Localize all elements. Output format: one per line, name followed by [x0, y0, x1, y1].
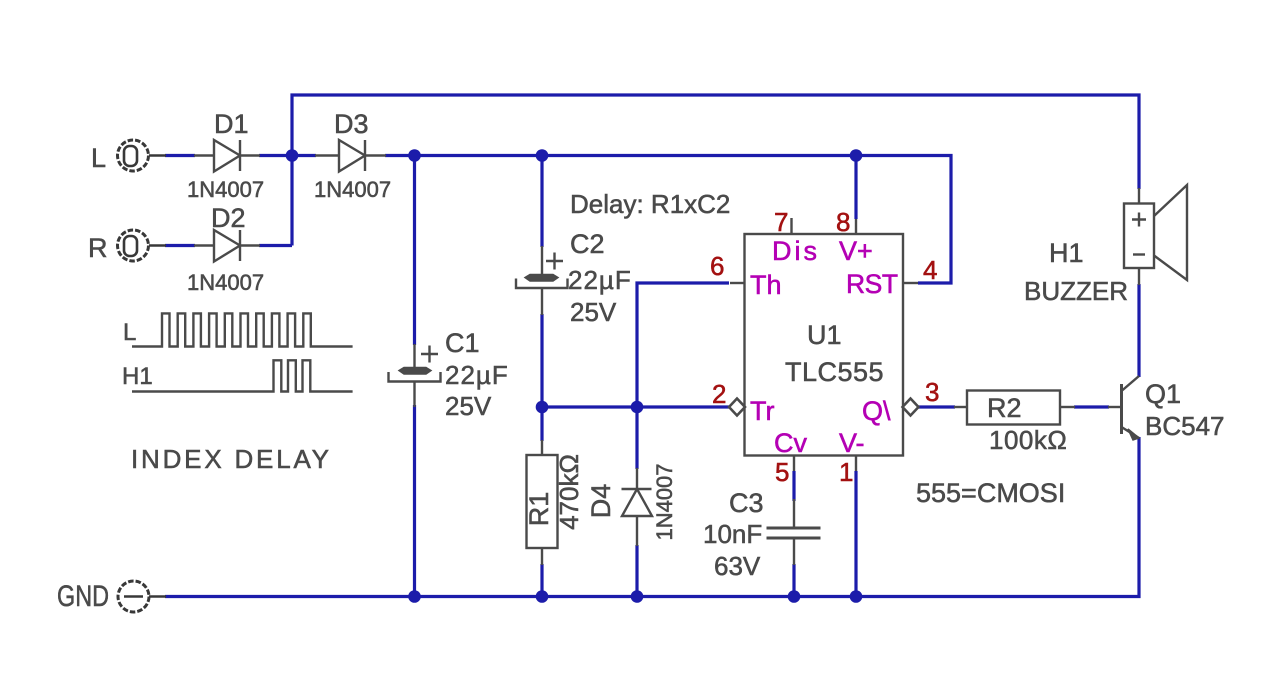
wire Th net	[637, 283, 729, 469]
svg-text:GND: GND	[57, 580, 109, 613]
wire R input	[165, 244, 292, 247]
svg-text:63V: 63V	[714, 551, 761, 581]
svg-text:V+: V+	[839, 236, 873, 266]
wire R1 column	[540, 407, 543, 596]
svg-text:7: 7	[774, 207, 788, 237]
svg-text:RST: RST	[846, 269, 898, 299]
svg-text:25V: 25V	[570, 297, 617, 327]
pin 3 diamond (Q\)	[903, 399, 919, 416]
ground terminal GND	[118, 581, 166, 612]
svg-text:1: 1	[839, 457, 853, 487]
svg-text:4: 4	[923, 255, 937, 285]
wire D3 output to RST rail	[385, 156, 951, 284]
terminal R	[118, 230, 167, 261]
wire Q output to R2	[918, 405, 1109, 408]
svg-text:Cv: Cv	[774, 428, 807, 458]
svg-text:3: 3	[925, 377, 939, 407]
svg-text:R1: R1	[524, 492, 554, 527]
svg-text:D3: D3	[334, 109, 369, 139]
svg-text:Dis: Dis	[772, 236, 820, 266]
svg-text:Q1: Q1	[1145, 379, 1181, 409]
wire C1 column	[413, 156, 416, 597]
svg-text:Th: Th	[750, 270, 782, 300]
capacitor C3	[767, 499, 821, 565]
op-amp / IC U1 TLC555 body	[730, 218, 918, 471]
svg-text:H1: H1	[122, 363, 153, 390]
wire Tr net	[542, 405, 729, 408]
wire L/R net y=155.5	[165, 154, 316, 157]
wire pin5 Cv / C3	[792, 471, 795, 596]
svg-text:22µF: 22µF	[445, 360, 509, 390]
waveform L trace	[132, 313, 353, 346]
svg-text:555=CMOSI: 555=CMOSI	[916, 478, 1065, 508]
svg-text:Q\: Q\	[862, 396, 891, 426]
resistor R2	[954, 391, 1075, 425]
resistor R1	[527, 440, 558, 565]
svg-text:INDEX DELAY: INDEX DELAY	[131, 444, 332, 474]
svg-text:6: 6	[710, 251, 724, 281]
wire GND rail	[165, 437, 1139, 597]
wire pin1 V-	[854, 471, 857, 596]
diode D3	[315, 140, 386, 172]
svg-text:R2: R2	[987, 393, 1022, 423]
diode D1	[194, 140, 260, 172]
diode D4 (vertical)	[622, 468, 653, 546]
buzzer H1	[1124, 185, 1187, 285]
svg-text:D2: D2	[211, 203, 246, 233]
svg-text:2: 2	[712, 379, 726, 409]
wire top V+ rail	[292, 95, 1139, 246]
wire D4 bottom	[635, 545, 638, 596]
svg-text:100kΩ: 100kΩ	[989, 425, 1067, 455]
pin 2 diamond (Tr)	[729, 399, 745, 416]
svg-text:L: L	[123, 319, 136, 346]
diode D2	[194, 230, 260, 262]
capacitor C2	[516, 246, 568, 315]
capacitor C1	[389, 344, 441, 407]
svg-text:1N4007: 1N4007	[187, 270, 264, 295]
svg-text:D4: D4	[586, 484, 616, 519]
svg-text:V-: V-	[839, 428, 865, 458]
svg-text:1N4007: 1N4007	[314, 177, 391, 202]
svg-text:22µF: 22µF	[568, 265, 632, 295]
svg-text:8: 8	[836, 207, 850, 237]
svg-text:470kΩ: 470kΩ	[554, 454, 584, 530]
svg-text:C1: C1	[445, 328, 480, 358]
svg-text:H1: H1	[1049, 238, 1084, 268]
svg-text:C2: C2	[570, 229, 605, 259]
svg-text:TLC555: TLC555	[785, 357, 884, 387]
svg-text:10nF: 10nF	[703, 519, 762, 549]
svg-text:1N4007: 1N4007	[187, 177, 264, 202]
svg-text:Tr: Tr	[750, 396, 774, 426]
svg-text:5: 5	[775, 457, 789, 487]
wire buzzer to Q1 collector	[1137, 284, 1140, 377]
wire pin8 V+	[854, 156, 857, 220]
svg-text:25V: 25V	[445, 391, 492, 421]
svg-text:R: R	[88, 233, 108, 263]
svg-text:C3: C3	[729, 488, 764, 518]
svg-text:L: L	[91, 143, 106, 173]
svg-text:BUZZER: BUZZER	[1024, 276, 1128, 306]
svg-text:D1: D1	[214, 109, 249, 139]
svg-text:BC547: BC547	[1145, 411, 1225, 441]
svg-text:Delay: R1xC2: Delay: R1xC2	[570, 189, 730, 219]
svg-text:1N4007: 1N4007	[652, 463, 677, 540]
wire C2 column	[540, 156, 543, 408]
waveform H1 trace	[132, 360, 353, 391]
transistor Q1	[1108, 376, 1139, 440]
svg-text:U1: U1	[807, 320, 842, 350]
terminal L	[118, 140, 167, 171]
